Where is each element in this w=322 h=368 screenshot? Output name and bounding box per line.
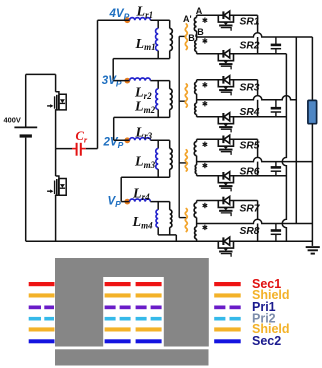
transistor SR4 [218,107,260,132]
transistor SR1 [218,11,260,31]
node 2VP [124,137,130,143]
wire stage 4 return leg [175,235,177,241]
transformer T2 secondary winding A [195,80,208,100]
winding layer Pri2 window column A [105,317,131,321]
source Vin 400V battery [4,74,38,241]
wire secondary row A block 2 [197,79,258,81]
wire stage 1 bottom [113,58,170,60]
wire secondary row B block 1 [197,53,287,55]
wire node 2VP horizontal [114,139,130,141]
winding layer Pri2 left [29,317,54,321]
ground [306,247,320,254]
svg-text:Cr: Cr [76,129,88,145]
transistor SR2 [218,41,260,70]
inductor Lm2 magnetizing [134,81,158,118]
wire stage 4 bottom [158,234,176,236]
wire rail load bottom [311,124,313,246]
wire to magnetizing/primary [150,201,169,203]
core bottom plate [55,349,209,365]
legend swatch Pri2 [214,317,241,321]
transformer T2 secondary winding B [195,100,207,117]
transistor SR3 [218,76,260,96]
svg-text:Lr1: Lr1 [136,5,154,20]
transformer T1 secondary winding B [195,37,207,54]
transistor SR6 [218,166,260,191]
svg-text:B: B [197,27,204,37]
winding layer Pri1 window column A [105,306,131,310]
svg-text:Lm1: Lm1 [135,37,156,52]
wire rail load top [311,37,313,100]
legend swatch Pri1 [214,306,241,310]
svg-text:A': A' [183,14,192,24]
transistor SR8 [218,226,260,257]
wire shield interconnect vertical [178,36,180,217]
wire shield stub T3 [179,162,186,164]
winding layer Sec2 left [29,339,55,343]
svg-text:SR1: SR1 [240,17,260,28]
wire stage 1 return leg [112,59,114,81]
core top plate [55,258,209,347]
winding layer Pri1 left [29,306,54,310]
wire primary bus vertical [97,20,99,148]
inductor Lr1 resonant [130,5,153,21]
transformer T3 core [185,150,187,171]
wire center tap block 1 [197,33,313,37]
capacitor Co1 output [271,37,281,54]
capacitor Co3 output [271,162,281,176]
wire rail center-tap bus [295,37,297,224]
winding layer Sec2 window column B [136,339,162,343]
svg-text:VP: VP [108,195,122,209]
winding layer Sec1 window column A [105,282,131,286]
node 4VP [124,17,130,23]
wire node 3VP horizontal [113,80,129,82]
svg-text:SR3: SR3 [240,82,260,93]
winding layer Sec1 window column B [136,282,162,286]
inductor Lr3 resonant [130,126,153,141]
wire stage 3 bottom [121,176,170,178]
transformer T4 secondary winding B [195,224,208,242]
wire node VP horizontal [121,201,129,203]
wire secondary row B block 3 [197,175,287,177]
transistor Q2 low-side MOSFET [47,149,66,242]
wire top rail Vin+ [26,73,56,75]
svg-text:SR5: SR5 [240,140,260,151]
legend swatch Sec1 [214,282,241,286]
capacitor Cr resonant [72,129,88,156]
svg-text:2VP: 2VP [103,136,124,150]
svg-text:Lm2: Lm2 [134,100,156,115]
transformer T3 primary winding [170,140,172,177]
wire center tap block 2 [197,96,297,100]
transformer T4 secondary winding A [194,201,207,224]
wire stage 2 bottom [114,116,170,118]
transformer T2 primary winding [170,81,172,118]
winding layer Sec1 left [29,282,55,286]
transistor Q1 high-side MOSFET [47,74,66,148]
wire shield stub T2 [179,100,186,102]
transformer T4 core [185,209,187,232]
wire to magnetizing/primary [150,139,169,141]
svg-text:Lr4: Lr4 [132,187,150,202]
svg-text:SR4: SR4 [240,107,260,118]
transformer T1 secondary winding A [194,15,207,37]
node 3VP [124,78,130,84]
transformer T3 secondary winding A [194,139,207,161]
node VP [124,199,130,205]
capacitor Co2 output [271,100,281,117]
legend swatch Sec2 [214,339,241,343]
inductor Lm1 magnetizing [135,20,159,58]
wire center tap block 3 [197,157,313,161]
inductor Lm4 magnetizing [132,202,159,235]
wire to magnetizing/primary [150,80,169,82]
wire SR7 output drop [257,201,259,220]
transformer T1 primary winding [170,20,173,58]
transistor SR7 [218,196,261,216]
wire rail SR-output bus [282,54,286,241]
svg-text:3VP: 3VP [102,75,122,89]
svg-text:SR2: SR2 [240,41,260,52]
wire stage 2 return leg [113,117,115,140]
legend swatch Shield [214,293,241,297]
svg-text:SR6: SR6 [240,166,260,177]
wire SR5 output drop [257,139,259,157]
wire shield stub T1 [179,35,186,37]
inductor Lr2 resonant [130,78,152,101]
winding layer Pri2 window column B [136,317,162,321]
wire SR1 output drop [257,15,259,33]
inductor Lm3 magnetizing [134,140,158,177]
legend swatch Shield [214,327,241,331]
transformer T2 core [185,84,187,107]
winding layer Sec2 window column A [105,339,131,343]
svg-text:Lm3: Lm3 [134,155,156,170]
wire secondary row A block 1 [197,14,258,16]
wire bridge midpoint to Cr [56,148,72,150]
wire stage 3 return leg [120,177,122,201]
wire to magnetizing/primary [150,19,169,21]
winding layer Shield window column A [105,293,131,297]
winding layer Shield window column B [136,327,162,331]
transistor SR5 [218,135,260,155]
winding layer Pri1 window column B [136,306,162,310]
svg-text:400V: 400V [4,116,21,125]
wire SR3 output drop [257,80,259,96]
winding layer Shield window column B [136,293,162,297]
inductor Lr4 resonant [130,187,151,202]
wire secondary row A block 4 [197,200,258,202]
wire center tap block 4 [197,219,313,223]
transformer T1 core [185,24,187,49]
svg-text:Lm4: Lm4 [132,215,154,230]
winding layer Shield left [29,293,55,297]
transformer T3 secondary winding B [195,162,207,176]
capacitor Co4 output [271,224,281,242]
transformer T4 primary winding [170,202,172,235]
svg-text:SR8: SR8 [240,226,260,237]
winding layer Shield left [29,327,55,331]
winding layer Shield window column A [105,327,131,331]
resistor RL load [308,100,317,123]
wire Cr to primary bus [86,148,98,150]
svg-text:4VP: 4VP [109,8,130,22]
svg-text:Sec2: Sec2 [252,334,281,348]
wire secondary row B block 2 [197,116,287,118]
wire shield stub T4 [179,217,186,219]
wire secondary row A block 3 [197,138,258,140]
wire bottom ground rail [26,240,313,242]
svg-text:Lr3: Lr3 [135,126,153,141]
wire node 4VP horizontal [98,19,130,21]
